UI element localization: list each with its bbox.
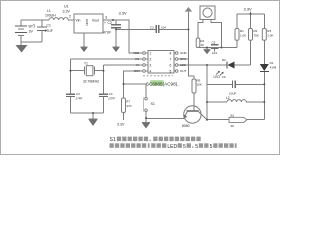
inductor L1	[49, 18, 68, 20]
ground (U1, arrow)	[81, 47, 88, 52]
node mic bias left	[206, 47, 208, 49]
capacitor C3	[66, 94, 75, 96]
svg-text:4148: 4148	[270, 65, 277, 69]
svg-text:SPK: SPK	[180, 57, 186, 61]
node mic bias right	[221, 47, 223, 49]
capacitor C1	[37, 27, 47, 31]
svg-text:GND: GND	[85, 19, 89, 27]
resistor R2	[249, 29, 253, 41]
capacitor C4	[99, 94, 108, 96]
capacitor C7 (104)	[156, 25, 159, 33]
IC U2 dashed selection row	[143, 75, 173, 77]
svg-text:C2: C2	[150, 25, 154, 29]
regulator U1	[74, 14, 103, 33]
wire IC pin4 to R7 and S1	[124, 71, 147, 98]
capacitor C5	[211, 45, 218, 49]
svg-text:L2: L2	[226, 96, 230, 100]
ground (C2, arrow)	[113, 47, 120, 52]
capacitor C1 labels	[33, 23, 53, 33]
svg-text:104: 104	[212, 51, 217, 55]
svg-text:XI: XI	[136, 63, 139, 67]
microphone MK1	[200, 6, 215, 20]
svg-text:U1: U1	[64, 5, 69, 9]
resistor R3	[262, 29, 266, 41]
IC U2 left net labels	[133, 51, 140, 73]
transistor Q1 emitter arrow	[184, 114, 188, 118]
svg-text:S1: S1	[151, 102, 155, 106]
svg-text:B1: B1	[231, 113, 235, 117]
ground (mic, arrow)	[204, 49, 211, 54]
node crystal left	[70, 70, 72, 72]
node collector top	[206, 101, 208, 103]
ground (battery, solid)	[16, 45, 28, 53]
caption line 1	[110, 137, 201, 143]
svg-text:+: +	[104, 21, 106, 25]
capacitor C7 labels	[150, 25, 167, 29]
wire collector net vertical	[206, 65, 208, 120]
svg-text:3V: 3V	[29, 30, 34, 34]
svg-text:10UF: 10UF	[229, 92, 237, 96]
svg-text:C6: C6	[222, 75, 226, 79]
svg-text:D1: D1	[270, 61, 274, 65]
wire S1 bottom to ground and emitter line	[146, 111, 184, 122]
diode D2 emission arrows	[216, 71, 223, 75]
svg-text:1: 1	[150, 51, 152, 55]
resistor R3 labels	[267, 29, 273, 38]
svg-text:8050: 8050	[182, 124, 190, 128]
wire R5 to base	[193, 93, 195, 111]
svg-text:100UH: 100UH	[45, 14, 56, 18]
svg-text:Vin: Vin	[76, 19, 81, 23]
svg-text:8: 8	[170, 51, 172, 55]
wire mic ground stem	[206, 48, 208, 50]
svg-text:L1: L1	[47, 9, 51, 13]
ground (crystal caps, arrow)	[89, 119, 98, 126]
capacitor C3 labels	[76, 92, 83, 100]
ground (S1, arrow)	[142, 123, 150, 129]
svg-text:LED: LED	[214, 75, 221, 79]
node junction R7/S1	[123, 83, 125, 85]
node crystal gnd	[92, 112, 94, 114]
crystal Y1	[71, 66, 104, 76]
node collector bottom	[206, 119, 208, 121]
svg-text:+: +	[33, 23, 35, 27]
svg-text:4: 4	[150, 69, 152, 73]
svg-text:3.3V: 3.3V	[244, 7, 253, 12]
svg-text:3.3V: 3.3V	[119, 11, 128, 16]
wire crystal right: to IC pin3	[104, 65, 143, 71]
svg-text:5: 5	[170, 69, 172, 73]
svg-text:R2: R2	[254, 29, 258, 33]
svg-text:5: 5	[195, 144, 198, 150]
wire U1 Vout to 3.3V rail and down to IC pin1	[103, 20, 143, 53]
resistor R4	[196, 38, 200, 48]
capacitor C2 labels	[103, 21, 112, 35]
wire IC pin2 right to R5	[178, 58, 188, 60]
wire buzzer row	[207, 119, 264, 121]
resistor R7	[122, 98, 126, 113]
wire C4 stubs	[103, 71, 105, 113]
svg-text:SC6865(AC98)..: SC6865(AC98)..	[146, 81, 180, 86]
wire battery top to rail	[20, 20, 22, 26]
svg-text:VDD: VDD	[133, 51, 140, 55]
node L2 right	[263, 101, 265, 103]
svg-text:5: 5	[210, 144, 213, 150]
svg-text:2: 2	[69, 14, 71, 18]
svg-text:OUT: OUT	[180, 69, 187, 73]
svg-text:C5: C5	[212, 41, 216, 45]
IC U2 part number highlighted	[146, 80, 180, 86]
node bypass right	[187, 28, 189, 30]
buzzer B1 labels	[231, 113, 235, 128]
wire right riser	[263, 40, 265, 120]
node bypass left	[115, 28, 117, 30]
wire bypass cap row	[116, 28, 188, 30]
svg-text:XO: XO	[135, 57, 140, 61]
node crystal right	[103, 70, 105, 72]
svg-text:Y1: Y1	[84, 62, 88, 66]
svg-text:D2: D2	[222, 58, 226, 62]
svg-text:10K: 10K	[197, 83, 202, 87]
svg-text:GND: GND	[180, 51, 188, 55]
svg-text:LED: LED	[167, 144, 177, 150]
capacitor C6 labels	[222, 75, 237, 96]
capacitor C4 labels	[108, 92, 115, 100]
diode D1	[260, 64, 269, 71]
buzzer B1	[229, 117, 247, 122]
U1 pin labels	[76, 19, 99, 27]
resistor R1 labels	[240, 29, 246, 38]
svg-text:47UF: 47UF	[103, 31, 111, 35]
svg-text:3: 3	[105, 16, 107, 20]
capacitor C5 labels	[212, 41, 218, 56]
svg-text:R1: R1	[240, 29, 244, 33]
diode D1 labels	[270, 61, 277, 69]
wire LED anode to R2	[235, 40, 251, 65]
inductor L1 labels	[45, 9, 56, 18]
power 3.3V right	[244, 7, 253, 16]
IC U2 right net labels	[180, 51, 188, 73]
svg-text:32.768KHZ: 32.768KHZ	[83, 80, 99, 84]
battery BT1	[15, 26, 27, 36]
svg-text:1K: 1K	[200, 43, 204, 47]
wire VDD riser to R5	[188, 12, 194, 79]
wire crystal caps bottom rail	[71, 113, 104, 119]
svg-text:27PF: 27PF	[76, 97, 83, 101]
wire C3 stubs	[70, 71, 72, 113]
resistor R2 labels	[254, 29, 259, 38]
svg-text:R7: R7	[126, 100, 130, 104]
U1 designator labels	[63, 5, 71, 14]
power symbol VDD	[185, 7, 193, 12]
capacitor C2	[111, 25, 121, 28]
node C6 right	[263, 83, 265, 85]
svg-text:2K: 2K	[231, 124, 235, 128]
wire crystal left: to IC pin2	[71, 59, 143, 71]
node S1 bottom junction	[145, 117, 147, 119]
wire C6 coupling row	[207, 83, 264, 85]
wire mic left lead to R4	[198, 20, 203, 38]
capacitor C6	[233, 80, 236, 88]
svg-text:6: 6	[170, 63, 172, 67]
IC U2 pin numbers	[150, 51, 172, 73]
diode D2 LED	[227, 62, 235, 69]
svg-text:R3: R3	[267, 29, 271, 33]
resistor R5	[192, 79, 196, 93]
node dot C2 branch	[112, 19, 114, 21]
IC U2 left pin stubs	[143, 52, 148, 73]
inductor L2	[227, 100, 246, 102]
wire R7 bottom stub	[123, 113, 125, 121]
wire U1 gnd stem	[83, 33, 85, 47]
svg-text:LED: LED	[180, 63, 187, 67]
resistor R4 labels	[200, 39, 204, 47]
resistor R1	[235, 29, 239, 41]
wire 3.3V rail right	[237, 12, 264, 29]
transistor Q1	[184, 106, 207, 123]
svg-text:1.0K: 1.0K	[240, 34, 246, 38]
svg-text:2: 2	[150, 57, 152, 61]
wire C5 bottom stub	[214, 48, 216, 51]
svg-text:3: 3	[150, 63, 152, 67]
svg-text:47UF: 47UF	[45, 29, 53, 33]
wire IC pin3 right to LED D2	[178, 64, 227, 66]
resistor R7 labels	[126, 100, 131, 109]
wire mic right lead down	[211, 20, 222, 48]
IC U2 body	[148, 51, 174, 74]
caption line 2	[110, 143, 237, 150]
wire L1 to U1	[21, 19, 74, 21]
svg-text:Vout: Vout	[92, 19, 99, 23]
wire battery bottom rail	[21, 31, 42, 46]
switch S1	[143, 97, 147, 111]
svg-text:3.3V: 3.3V	[117, 123, 125, 127]
wire C1 top stub	[41, 20, 43, 27]
svg-text:C2: C2	[108, 21, 112, 25]
svg-text:104: 104	[161, 25, 166, 29]
svg-text:S1: S1	[110, 137, 116, 143]
IC U2 right pin stubs	[174, 52, 178, 73]
svg-text:47K: 47K	[126, 104, 131, 108]
svg-text:27PF: 27PF	[108, 97, 115, 101]
crystal Y1 labels	[83, 62, 99, 84]
battery BT1 labels	[29, 25, 36, 34]
wire C2 stub and ground stem	[115, 20, 117, 47]
svg-text:75K: 75K	[254, 34, 259, 38]
svg-text:7: 7	[170, 57, 172, 61]
wire R1 bottom to mic bias row	[196, 40, 237, 47]
wire L2 row	[207, 101, 264, 103]
node LED junction	[206, 64, 208, 66]
svg-text:3.3V: 3.3V	[63, 10, 71, 14]
resistor R5 labels	[197, 79, 202, 87]
svg-text:RST: RST	[134, 69, 140, 73]
svg-text:1.0K: 1.0K	[267, 34, 273, 38]
svg-text:5: 5	[183, 144, 186, 150]
svg-text:C1: C1	[47, 24, 51, 28]
